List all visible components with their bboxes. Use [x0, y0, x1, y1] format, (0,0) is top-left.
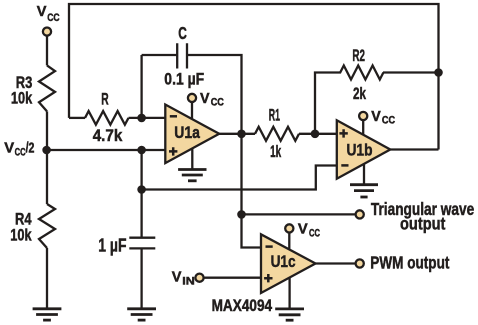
- ground (1uF): [127, 309, 156, 320]
- svg-text:CC: CC: [211, 97, 224, 109]
- svg-text:V: V: [371, 108, 381, 125]
- svg-text:CC: CC: [382, 115, 395, 127]
- wire: feedback loop from U1b output along top to R left lead: [69, 4, 439, 150]
- svg-text:CC: CC: [47, 12, 59, 24]
- svg-text:U1c: U1c: [271, 252, 296, 271]
- svg-text:CC: CC: [309, 228, 320, 240]
- VCC terminal (U1c): [285, 224, 293, 232]
- node: triangular wave tap: [237, 210, 246, 219]
- node: lower rail junction: [137, 185, 146, 194]
- svg-text:/2: /2: [26, 140, 35, 157]
- svg-text:V: V: [200, 90, 210, 107]
- svg-text:R: R: [101, 90, 108, 109]
- U1c plus input mark: [264, 274, 272, 282]
- capacitor C1 1uF: [129, 238, 155, 249]
- svg-text:U1a: U1a: [174, 123, 200, 142]
- terminal: PWM output: [356, 259, 364, 267]
- svg-text:V: V: [37, 3, 47, 20]
- VCC terminal (U1a): [188, 94, 196, 102]
- svg-text:MAX4094: MAX4094: [212, 297, 273, 315]
- wire: R2 right lead to feedback line: [383, 71, 439, 73]
- svg-text:10k: 10k: [10, 226, 32, 245]
- wire: R3 to R4 through VCC/2 node: [46, 111, 48, 204]
- svg-text:R2: R2: [352, 46, 365, 65]
- op-amp U1c ground stub: [288, 272, 290, 309]
- svg-text:1k: 1k: [270, 142, 281, 161]
- svg-text:C: C: [178, 23, 187, 43]
- wire: VIN to U1c + input: [204, 277, 261, 279]
- capacitor C 0.1uF: [177, 43, 187, 68]
- node: R1/R2 junction: [311, 130, 320, 139]
- svg-text:V: V: [172, 269, 182, 286]
- resistor R4: [39, 204, 55, 248]
- U1b plus input mark: [339, 129, 347, 137]
- wire: 1uF to ground: [140, 248, 142, 308]
- resistor R2: [337, 66, 383, 80]
- wire: to C left plate: [142, 54, 178, 56]
- wire: R 4.7k left lead: [69, 117, 85, 119]
- wire: C right plate to output branch: [187, 55, 242, 134]
- VCC terminal (U1b): [359, 112, 367, 120]
- ground (left rail): [33, 309, 62, 320]
- svg-text:10k: 10k: [11, 89, 33, 108]
- wire: R1 to U1b + input: [299, 133, 337, 135]
- resistor R 4.7k: [85, 111, 128, 125]
- ground (U1a): [178, 170, 206, 181]
- node: U1a output: [237, 130, 246, 139]
- wire: R right lead to U1a inverting input: [129, 117, 166, 119]
- ground (U1b): [350, 185, 378, 197]
- svg-text:1 µF: 1 µF: [98, 235, 126, 256]
- U1a plus input mark: [169, 147, 177, 155]
- terminal: triangular wave output: [356, 210, 364, 218]
- svg-text:4.7k: 4.7k: [93, 126, 123, 145]
- svg-text:output: output: [400, 214, 445, 234]
- wire: R4 to ground: [46, 248, 48, 308]
- node VCC/2: [42, 146, 51, 155]
- op-amp U1a: [165, 105, 219, 164]
- wire: U1c output to PWM terminal: [316, 262, 356, 264]
- node: R2/feedback junction: [434, 68, 443, 77]
- svg-text:0.1 µF: 0.1 µF: [164, 70, 204, 89]
- svg-text:V: V: [298, 221, 308, 238]
- op-amp U1b VCC stub: [362, 120, 364, 140]
- wire: R2 branch up from R1 node: [315, 73, 337, 134]
- op-amp U1b: [337, 120, 391, 178]
- svg-text:CC: CC: [15, 146, 26, 158]
- wire: U1a output to R1: [219, 133, 255, 135]
- wire: VCC terminal to R3: [46, 36, 48, 66]
- op-amp U1a VCC stub: [191, 102, 193, 122]
- VCC supply terminal (top left): [43, 28, 51, 36]
- op-amp U1b ground stub: [363, 160, 365, 185]
- op-amp U1a ground stub: [191, 146, 193, 170]
- U1a minus input mark: [170, 115, 177, 118]
- svg-text:U1b: U1b: [347, 140, 373, 159]
- U1b minus input mark: [341, 164, 348, 167]
- resistor R1: [255, 127, 299, 141]
- svg-text:2k: 2k: [353, 84, 366, 103]
- node: U1a inverting input junction: [137, 114, 146, 123]
- op-amp U1c VCC stub: [288, 232, 290, 252]
- wire: inverting node up to capacitor C: [140, 55, 142, 118]
- svg-text:R1: R1: [269, 105, 280, 124]
- svg-text:PWM output: PWM output: [370, 252, 449, 272]
- wire: U1b output to feedback corner: [390, 148, 438, 150]
- svg-text:IN: IN: [182, 275, 195, 287]
- resistor R3: [39, 65, 55, 111]
- terminal VIN: [195, 274, 203, 282]
- wire: lower rail to U1b inverting input: [142, 166, 337, 190]
- svg-text:V: V: [4, 140, 14, 157]
- op-amp U1c: [261, 234, 316, 293]
- wire: U1a output down to triangular rail and U1c - input: [242, 134, 262, 248]
- U1c minus input mark: [266, 245, 273, 248]
- node: VCC/2 rail / mid vertical: [137, 146, 146, 155]
- ground (U1c): [275, 309, 304, 320]
- wire: mid vertical VCC/2 node down to 1uF cap: [140, 150, 142, 238]
- wire: VCC/2 rail to U1a + input: [47, 149, 166, 151]
- wire: to triangular wave output terminal: [242, 213, 356, 215]
